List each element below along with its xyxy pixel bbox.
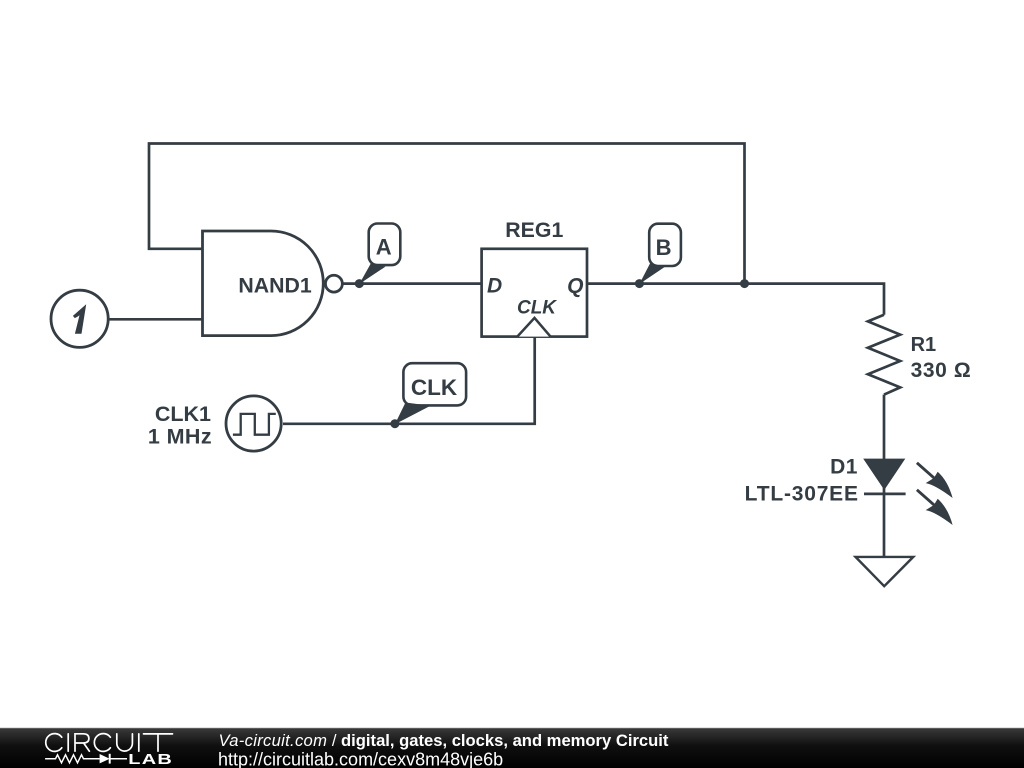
svg-text:CLK: CLK <box>517 297 557 318</box>
footer bar <box>0 727 1024 768</box>
svg-text:CLK: CLK <box>411 375 458 400</box>
node dot feedback junction <box>740 279 749 288</box>
svg-text:1 MHz: 1 MHz <box>148 425 212 449</box>
svg-text:NAND1: NAND1 <box>238 274 312 298</box>
LED light arrow 2 <box>917 490 953 525</box>
ground <box>856 557 914 586</box>
label 1 <box>73 304 86 334</box>
logic input 1 <box>51 290 108 347</box>
node flag A <box>359 224 400 285</box>
svg-text:D: D <box>487 274 502 297</box>
node flag CLK <box>395 363 466 424</box>
svg-text:330 Ω: 330 Ω <box>911 359 972 382</box>
CircuitLab logo <box>45 734 173 768</box>
svg-text:LAB: LAB <box>128 751 173 768</box>
node flag B <box>639 224 681 284</box>
LED light arrow 1 <box>917 463 953 498</box>
svg-text:A: A <box>376 235 392 260</box>
LED cathode bar <box>864 493 906 496</box>
NAND1 inversion bubble <box>325 275 342 292</box>
svg-text:Q: Q <box>567 274 583 297</box>
resistor R1 <box>868 315 971 395</box>
wire REG1 Q to resistor <box>587 284 884 315</box>
gate NAND1 <box>203 231 343 336</box>
node dot CLK <box>390 419 399 428</box>
flip-flop REG1 <box>482 218 587 337</box>
wire CLK1 to REG1 clock <box>283 337 535 424</box>
svg-text:D1: D1 <box>830 455 858 478</box>
wire input 1 to NAND1 <box>109 318 203 321</box>
svg-text:Va-circuit.com / digital, gate: Va-circuit.com / digital, gates, clocks,… <box>219 731 669 750</box>
wire NAND1 output to REG1 D <box>342 282 482 285</box>
node dot A <box>355 279 364 288</box>
svg-text:REG1: REG1 <box>505 218 563 242</box>
wire resistor to ground through LED <box>883 395 886 557</box>
svg-text:http://circuitlab.com/cexv8m48: http://circuitlab.com/cexv8m48vje6b <box>218 749 503 768</box>
wire feedback loop <box>149 144 745 284</box>
svg-text:LTL-307EE: LTL-307EE <box>745 482 859 505</box>
svg-text:R1: R1 <box>911 334 937 356</box>
node dot B <box>635 279 644 288</box>
svg-text:CLK1: CLK1 <box>155 402 211 426</box>
LED D1 <box>745 455 953 525</box>
footer text <box>218 731 669 768</box>
clock source CLK1 <box>148 396 281 451</box>
svg-text:B: B <box>656 235 672 260</box>
clock edge triangle <box>517 318 550 337</box>
